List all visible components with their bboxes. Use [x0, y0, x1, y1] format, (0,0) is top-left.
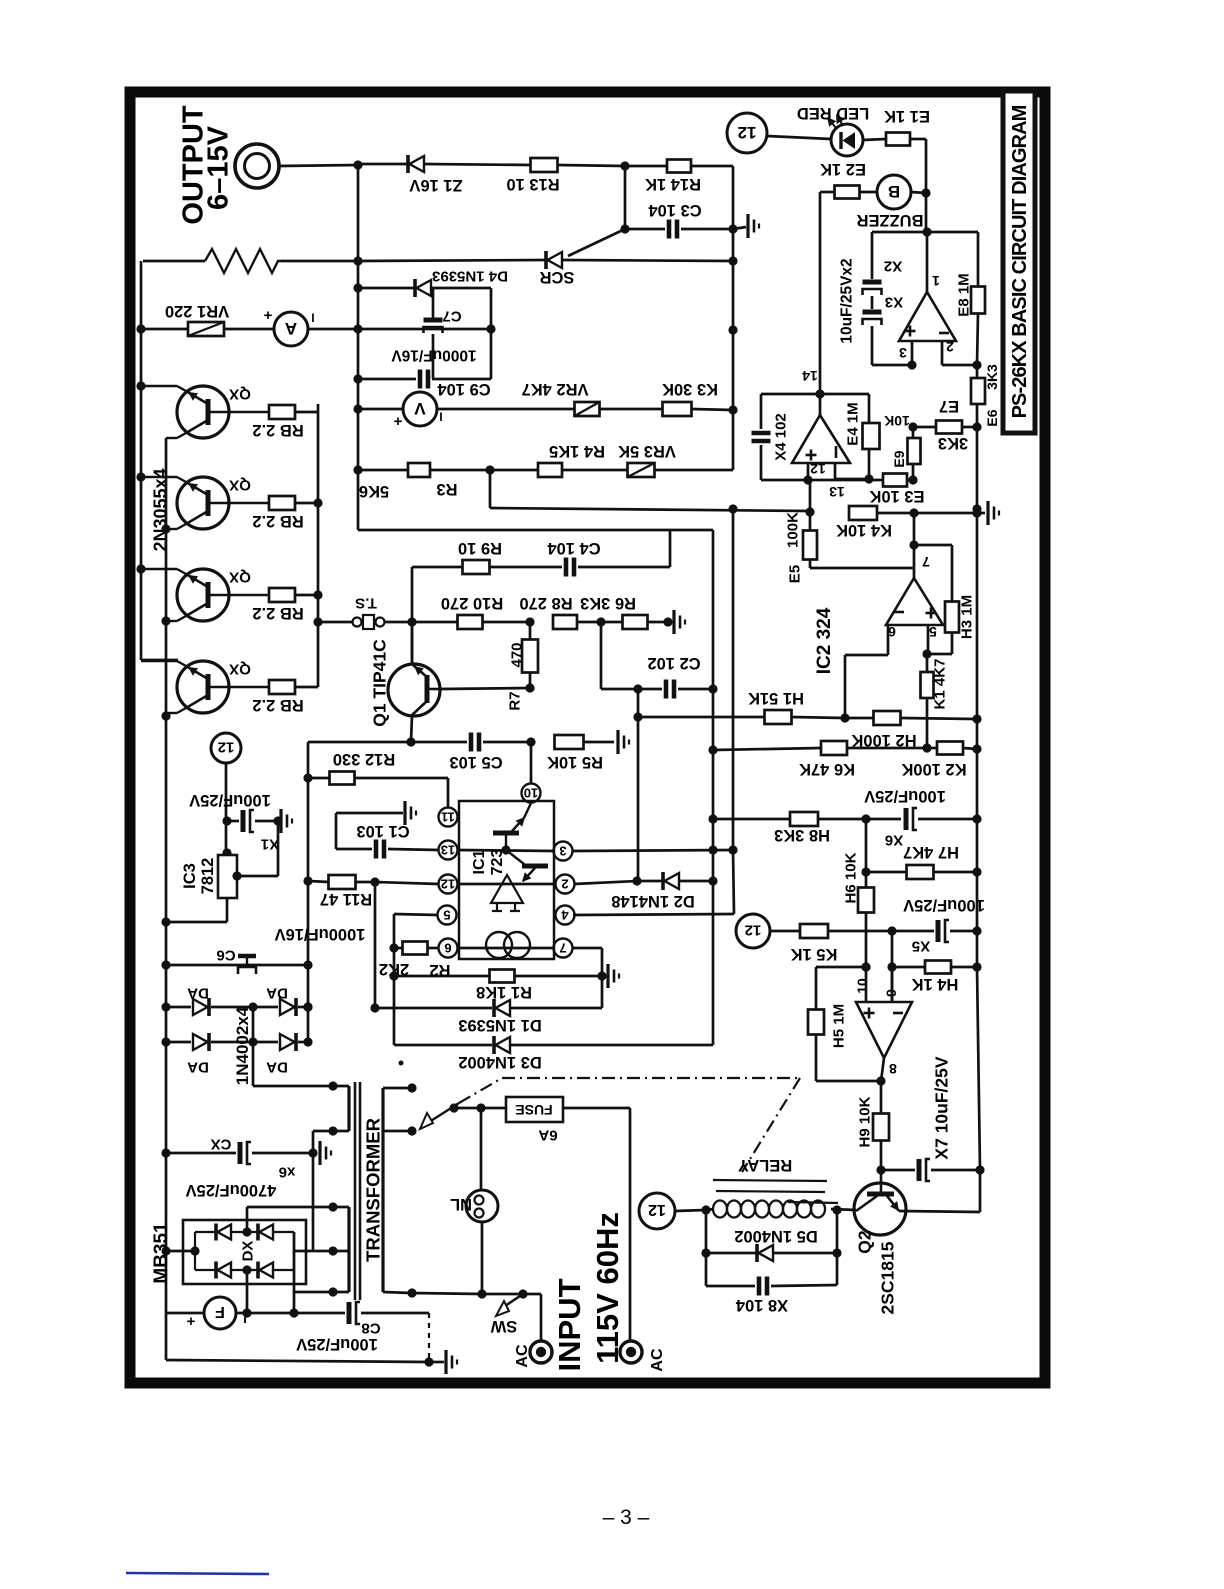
regulator IC3 7812 — [181, 855, 237, 898]
potentiometer VR1 220 — [143, 302, 274, 336]
pilot lamp NL — [450, 1108, 498, 1299]
resistor K2 100K — [901, 742, 977, 779]
resistor R3 5K6 — [353, 463, 490, 500]
resistor E3 10K — [869, 474, 924, 506]
svg-text:H5 1M: H5 1M — [830, 1004, 847, 1048]
wire output rail (vertical x358) — [357, 164, 360, 530]
fuse FUSE 6A — [449, 1097, 630, 1144]
transistor Q2 2SC1815 — [854, 1170, 906, 1314]
transistor QX (412) — [141, 386, 269, 438]
wire DA center down — [252, 1007, 255, 1086]
svg-text:K1 4K7: K1 4K7 — [931, 659, 948, 710]
IC1 723 box — [459, 801, 554, 959]
svg-text:H8 3K3: H8 3K3 — [774, 826, 830, 844]
svg-text:RB 2.2: RB 2.2 — [252, 604, 303, 622]
resistor H2 100K — [845, 711, 982, 749]
wire pin9 vertical — [887, 931, 896, 1002]
resistor E7 3K3 — [908, 397, 981, 452]
ground at R1 — [608, 964, 619, 988]
svg-text:DA: DA — [266, 985, 288, 1002]
resistor E4 1M — [820, 394, 880, 479]
svg-text:H1 51K: H1 51K — [748, 689, 804, 707]
svg-text:DA: DA — [187, 1059, 209, 1076]
svg-text:12: 12 — [745, 922, 762, 939]
ground near buzzer — [733, 214, 759, 238]
resistor R12 330 — [308, 750, 448, 784]
wire op4 pin9 lead — [891, 967, 894, 1002]
transistor QX (687) — [141, 661, 269, 713]
diode D1 1N5393 — [370, 976, 602, 1034]
linkage dash-dot to relay — [459, 1078, 800, 1172]
svg-text:6A: 6A — [538, 1127, 557, 1144]
svg-text:1N4002x4: 1N4002x4 — [233, 1006, 252, 1085]
resistor E1 1K — [863, 107, 930, 145]
wire R11 node down — [374, 882, 377, 1008]
wire Q1 emitter down — [406, 715, 415, 747]
resistor H3 1M feedback — [914, 545, 975, 654]
resistor RB 2.2 (595) — [252, 588, 318, 622]
svg-text:H3 1M: H3 1M — [958, 595, 975, 639]
meter F — [166, 1297, 299, 1330]
svg-text:FUSE: FUSE — [515, 1102, 552, 1118]
svg-text:K4 10K: K4 10K — [836, 521, 892, 539]
svg-text:V: V — [414, 399, 426, 418]
svg-text:VR2 4K7: VR2 4K7 — [522, 380, 589, 398]
svg-text:C7: C7 — [442, 308, 461, 325]
svg-text:R7: R7 — [506, 691, 523, 710]
ammeter A — [263, 307, 362, 346]
wire fuse to AC jack — [629, 1108, 632, 1341]
svg-text:DA: DA — [266, 1059, 288, 1076]
svg-text:Q2: Q2 — [854, 1230, 874, 1254]
wire ammeter line to C7 loop — [358, 324, 496, 333]
svg-text:7: 7 — [922, 554, 930, 570]
wire pin4 line from IC1 — [573, 850, 734, 915]
svg-text:+: + — [263, 307, 272, 324]
svg-text:IC3: IC3 — [181, 863, 199, 889]
resistor H4 1K — [892, 961, 977, 994]
wire bridge right to transformer — [294, 1232, 349, 1313]
svg-text:SCR: SCR — [540, 268, 575, 286]
resistor R4 1K5 — [485, 442, 628, 477]
svg-text:H2 100K: H2 100K — [851, 731, 916, 749]
resistor R5 10K — [547, 735, 614, 771]
svg-text:IC1: IC1 — [471, 849, 488, 874]
svg-text:X8 104: X8 104 — [735, 1296, 788, 1314]
wire DA to transformer top — [253, 1081, 349, 1090]
supply mark 12 (K5) — [736, 914, 770, 948]
svg-text:X7 10uF/25V: X7 10uF/25V — [931, 1056, 951, 1159]
wire pin13/E3 line y480 — [808, 475, 918, 484]
svg-text:D5 1N4002: D5 1N4002 — [734, 1227, 817, 1245]
wire rail A x141 — [136, 261, 178, 660]
supply mark 12 (IC3) — [211, 733, 241, 763]
op-amp IC2d (pins 8,9,10) — [854, 978, 912, 1077]
svg-text:VR1 220: VR1 220 — [165, 302, 229, 320]
wire RB rail x318 — [313, 404, 322, 687]
svg-text:SW: SW — [490, 1317, 517, 1335]
wire op3 pin5 lead — [922, 625, 931, 659]
svg-text:R3: R3 — [436, 480, 457, 498]
svg-text:R2: R2 — [429, 961, 450, 979]
resistor R10 270 — [412, 594, 535, 629]
capacitor X7 10uF/25V — [876, 1056, 984, 1181]
op-amp IC2a (pins 1,2,3) — [899, 273, 956, 361]
svg-text:R4 1K5: R4 1K5 — [549, 442, 605, 460]
resistor RB 2.2 (503) — [252, 496, 318, 530]
svg-text:12: 12 — [810, 461, 826, 477]
resistor E8 1M — [955, 273, 985, 365]
capacitor C6 1000uF/16V — [166, 925, 365, 974]
svg-text:C8: C8 — [361, 1320, 380, 1337]
IC1 pin 2 — [556, 875, 575, 894]
svg-text:R14 1K: R14 1K — [645, 175, 701, 193]
transistor QX (595) — [141, 569, 269, 621]
wire rail x308 — [303, 742, 312, 1042]
resistor RB 2.2 (412) — [252, 405, 318, 439]
svg-text:B: B — [888, 182, 900, 201]
svg-text:Z1 16V: Z1 16V — [409, 176, 462, 194]
capacitor C7 1000uF/16V — [391, 288, 491, 379]
relay RELAY — [675, 1156, 856, 1217]
svg-text:H6 10K: H6 10K — [842, 852, 859, 903]
svg-text:x6: x6 — [279, 1164, 296, 1181]
capacitor C8 100uF/25V — [294, 1302, 429, 1353]
svg-text:R5 10K: R5 10K — [547, 753, 603, 771]
transformer secondary winding — [294, 1086, 349, 1297]
svg-text:10K: 10K — [884, 413, 910, 429]
wire pin10 to C5 node — [530, 742, 533, 784]
svg-text:E2 1K: E2 1K — [820, 160, 866, 178]
resistor K5 1K — [770, 924, 897, 963]
svg-text:12: 12 — [738, 123, 757, 142]
svg-text:2: 2 — [946, 339, 954, 355]
svg-text:+: + — [393, 413, 402, 430]
svg-text:R1 1K8: R1 1K8 — [476, 983, 532, 1001]
svg-text:14: 14 — [802, 368, 818, 384]
fuse T.S — [313, 595, 412, 629]
svg-text:5K6: 5K6 — [359, 482, 389, 500]
wire pin7 to R1 node — [572, 948, 607, 981]
svg-text:H4 1K: H4 1K — [912, 975, 959, 993]
wire op2 pin12 lead — [803, 463, 812, 485]
svg-text:+: + — [186, 1313, 195, 1330]
transformer primary winding — [383, 1083, 417, 1297]
wire bridge left to rail — [166, 1250, 195, 1253]
capacitor C1 103 — [336, 801, 439, 859]
transformer core — [355, 1082, 360, 1300]
capacitor C2 102 — [601, 622, 713, 699]
wire rail to X7 — [977, 967, 980, 1170]
wire buzzer node to op nets — [872, 232, 978, 288]
svg-text:TRANSFORMER: TRANSFORMER — [363, 1118, 384, 1262]
svg-text:I: I — [439, 410, 442, 424]
svg-text:100uF/25V: 100uF/25V — [296, 1335, 378, 1353]
svg-text:D1 1N5393: D1 1N5393 — [458, 1016, 541, 1034]
wire op1 output pin1 — [922, 227, 931, 292]
ground at X1 — [279, 809, 282, 833]
svg-text:6–15V: 6–15V — [202, 125, 234, 210]
resistor E2 1K — [820, 160, 877, 198]
potentiometer VR2 4K7 and resistor K3 30K — [437, 380, 733, 416]
svg-text:H9 10K: H9 10K — [856, 1096, 873, 1147]
wire rail x713 — [708, 530, 717, 1045]
ground at R6 — [674, 610, 685, 634]
svg-text:E6: E6 — [984, 409, 1000, 426]
IC1 pin 11 — [439, 808, 458, 827]
capacitor X5 100uF/25V — [892, 896, 985, 955]
svg-text:1000uF/16V: 1000uF/16V — [391, 346, 477, 363]
zener Z1 16V — [358, 155, 531, 194]
svg-text:DX: DX — [239, 1241, 256, 1262]
wire op4 output down — [876, 1058, 885, 1114]
capacitor X6 100uF/25V — [708, 787, 977, 849]
svg-text:K2 100K: K2 100K — [901, 760, 966, 778]
IC1 pin 13 — [439, 841, 458, 860]
svg-text:D2 1N4148: D2 1N4148 — [611, 892, 694, 910]
svg-text:3: 3 — [559, 843, 566, 858]
svg-text:F: F — [215, 1303, 225, 1320]
wire node line y508 (K4 net) — [490, 470, 810, 511]
capacitor X1 100uF/25V — [189, 791, 282, 853]
IC1 pin 4 — [556, 906, 575, 925]
svg-text:C2 102: C2 102 — [647, 654, 700, 672]
wire op2 pin13 lead — [835, 463, 874, 484]
resistor R6 3K3 — [580, 594, 673, 629]
svg-text:Q1 TIP41C: Q1 TIP41C — [369, 639, 389, 727]
blue pen mark bottom-left — [126, 1573, 269, 1574]
resistor H7 4K7 — [866, 843, 977, 879]
resistor R13 10 — [506, 158, 625, 193]
svg-text:C3 104: C3 104 — [648, 201, 702, 219]
svg-text:13: 13 — [441, 842, 455, 857]
svg-text:AC: AC — [514, 1344, 531, 1368]
wire pin6 line — [457, 947, 554, 950]
wire switch to AC jack — [523, 1294, 541, 1341]
svg-text:RELAY: RELAY — [738, 1156, 792, 1174]
svg-text:– 3 –: – 3 – — [603, 1506, 650, 1529]
svg-text:100uF/25V: 100uF/25V — [903, 896, 985, 914]
svg-text:I: I — [311, 311, 314, 325]
svg-text:12: 12 — [648, 1201, 666, 1218]
resistor K1 4K7 — [921, 654, 949, 753]
svg-text:C4 104: C4 104 — [547, 539, 601, 557]
SCR with gate — [358, 224, 733, 286]
transistor QX (503) — [141, 477, 269, 529]
IC1 pin 10 — [522, 784, 541, 803]
transistor Q1 TIP41C — [369, 639, 440, 727]
page border frame — [130, 92, 1045, 1383]
voltmeter V — [353, 392, 442, 430]
capacitor C9 104 — [353, 370, 491, 399]
svg-text:1: 1 — [932, 273, 940, 289]
svg-text:X4 102: X4 102 — [772, 413, 789, 461]
diode D2 1N4148 — [574, 872, 713, 910]
ground at bottom return — [444, 1350, 447, 1374]
svg-text:AC: AC — [649, 1348, 666, 1372]
wire rail x733 lower — [728, 504, 737, 854]
svg-text:C5 103: C5 103 — [449, 753, 502, 771]
label OUTPUT 6-15V — [177, 105, 234, 225]
wire primary bottom line — [412, 1289, 528, 1298]
capacitor X8 104 — [706, 1210, 837, 1314]
IC1 pin 3 — [554, 842, 573, 861]
ground at CX — [318, 1141, 321, 1165]
svg-text:QX: QX — [229, 661, 251, 678]
svg-text:K5 1K: K5 1K — [791, 945, 838, 963]
svg-text:4: 4 — [561, 907, 569, 922]
svg-text:12: 12 — [218, 739, 235, 756]
resistor E6 3K3 — [971, 364, 1000, 427]
resistor R14 1K — [625, 160, 733, 194]
svg-text:NL: NL — [450, 1195, 472, 1213]
svg-text:K6 47K: K6 47K — [799, 760, 855, 778]
resistor RB 2.2 (687) — [252, 680, 318, 714]
resistor R1 1K8 — [394, 970, 602, 1002]
svg-text:2: 2 — [561, 876, 568, 891]
resistor H6 10K — [842, 852, 874, 971]
wire C2 node down to D2 — [637, 689, 640, 881]
wire R9 corner down — [407, 567, 416, 664]
label INPUT 115V 60Hz — [552, 1212, 625, 1371]
svg-text:115V 60Hz: 115V 60Hz — [590, 1212, 625, 1364]
svg-text:C6: C6 — [216, 947, 235, 964]
op-amp IC2b (pins 5,6,7) — [886, 554, 943, 640]
svg-text:C1 103: C1 103 — [356, 822, 409, 840]
svg-text:3K3: 3K3 — [984, 364, 1000, 390]
svg-text:E3 10K: E3 10K — [869, 487, 924, 505]
svg-text:E4 1M: E4 1M — [844, 402, 861, 445]
svg-text:D3 1N4002: D3 1N4002 — [458, 1053, 541, 1071]
svg-text:7812: 7812 — [199, 858, 217, 895]
svg-text:4700uF/25V: 4700uF/25V — [186, 1181, 277, 1199]
svg-text:E9: E9 — [891, 450, 907, 467]
bleeder resistor (zigzag) — [143, 249, 363, 273]
wire right rail (x733 upper) — [728, 166, 737, 470]
IC1 internal op-amp — [491, 875, 523, 911]
capacitors X2 X3 10uF/25Vx2 — [839, 232, 912, 365]
wire R12 to pin11 — [447, 778, 450, 807]
svg-text:100uF/25V: 100uF/25V — [864, 787, 946, 805]
resistor H5 1M — [808, 967, 881, 1081]
ground at K4 line — [972, 501, 999, 525]
voltage selector switch blade — [420, 1103, 459, 1129]
svg-text:R11 47: R11 47 — [320, 890, 372, 908]
svg-text:H7 4K7: H7 4K7 — [903, 843, 959, 861]
wire E1 corner down — [921, 139, 930, 232]
svg-text:A: A — [285, 319, 297, 338]
stray dot — [399, 1061, 404, 1066]
resistor R2 2K2 — [379, 942, 451, 980]
svg-text:8: 8 — [889, 1061, 897, 1077]
title box PS-26KX BASIC CIRCUIT DIAGRAM — [1003, 91, 1035, 433]
svg-text:R10 270: R10 270 — [441, 594, 503, 612]
svg-text:6: 6 — [444, 940, 451, 955]
wire pin3 long line — [573, 850, 733, 851]
wire IC3 gnd pin — [232, 821, 278, 881]
resistor R8 270 — [519, 594, 623, 629]
IC1 internal transistor 2 — [506, 850, 548, 882]
IC1 pin 6 — [439, 939, 458, 958]
capacitor CX 4700uF/25V x6 — [166, 1136, 318, 1200]
diode D3 1N4002 — [394, 1036, 713, 1071]
svg-text:3K3: 3K3 — [938, 434, 968, 452]
wire output to rail — [279, 160, 363, 169]
resistor R11 47 — [308, 875, 439, 908]
wire top line y530 — [358, 529, 713, 532]
wire op3 output pin7 — [909, 508, 918, 578]
diode DA (row2 left) — [166, 1033, 258, 1076]
capacitor C3 104 — [625, 166, 733, 239]
svg-text:R8 270: R8 270 — [519, 594, 572, 612]
supply mark 12 (top) — [727, 113, 767, 153]
svg-text:10uF/25Vx2: 10uF/25Vx2 — [839, 258, 856, 343]
bridge rectifier DX MB351 — [183, 1220, 306, 1284]
svg-text:R12 330: R12 330 — [333, 750, 395, 768]
capacitor C4 104 — [547, 530, 670, 577]
svg-text:CX: CX — [211, 1136, 232, 1153]
IC1 internal current limiter — [486, 932, 530, 958]
svg-text:VR3 5K: VR3 5K — [618, 442, 676, 460]
supply mark 12 (relay) — [639, 1193, 675, 1229]
IC1 pin 5 — [438, 906, 457, 925]
wire tap to CX node — [312, 1131, 315, 1251]
wire IC3 output — [166, 898, 227, 922]
wire rail x394 (pin5 net) — [389, 914, 438, 1045]
svg-text:MB351: MB351 — [151, 1222, 172, 1284]
svg-text:13: 13 — [829, 484, 845, 500]
IC1 pin 7 — [554, 939, 573, 958]
wire pin13 line inside — [457, 845, 554, 854]
wire C8 dashed return — [424, 1313, 433, 1367]
wire Q2 emitter to rail — [899, 1170, 980, 1212]
wire rail B x166 — [161, 438, 170, 1360]
AC input jack left — [514, 1341, 552, 1368]
svg-text:2N3055x4: 2N3055x4 — [151, 468, 171, 551]
svg-text:RB 2.2: RB 2.2 — [252, 696, 303, 714]
svg-text:E5: E5 — [786, 565, 803, 583]
svg-text:INPUT: INPUT — [552, 1278, 587, 1371]
output jack J1 — [235, 144, 279, 188]
svg-text:1000uF/16V: 1000uF/16V — [275, 925, 366, 943]
diode D5 1N4002 — [701, 1227, 841, 1262]
wire 12 to IC3 — [222, 763, 231, 858]
svg-text:10: 10 — [524, 785, 538, 800]
resistor E5 100K — [784, 480, 914, 583]
svg-text:QX: QX — [229, 477, 251, 494]
resistor H1 51K — [633, 689, 845, 724]
svg-text:2SC1815: 2SC1815 — [877, 1241, 897, 1314]
wire bridge bottom tap — [242, 1270, 251, 1318]
wire op1 pin3 lead — [907, 341, 916, 370]
svg-text:C9 104: C9 104 — [437, 380, 491, 398]
resistor E9 10K — [884, 413, 920, 480]
svg-text:5: 5 — [443, 907, 450, 922]
resistor K4 10K — [805, 506, 985, 539]
svg-text:11: 11 — [441, 809, 455, 824]
resistor K6 47K — [708, 741, 927, 778]
svg-text:BUZZER: BUZZER — [856, 211, 923, 229]
svg-text:7: 7 — [559, 940, 566, 955]
AC input jack right — [620, 1341, 666, 1372]
svg-text:R13 10: R13 10 — [506, 175, 559, 193]
page number -3- — [603, 1506, 650, 1529]
wire op1 pin2 lead — [942, 341, 982, 370]
resistor R9 10 — [412, 539, 562, 574]
op-amp IC2c (pins 12,13,14) — [792, 368, 850, 500]
switch SW — [490, 1294, 523, 1335]
svg-text:RB 2.2: RB 2.2 — [252, 512, 303, 530]
